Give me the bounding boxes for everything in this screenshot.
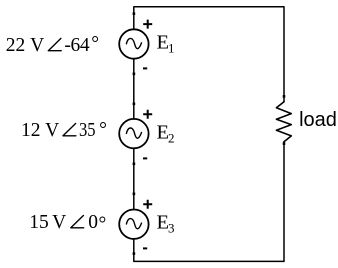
E1 polarity plus [143,20,152,29]
angle symbol label 3 [71,216,84,228]
svg-text:-64: -64 [64,35,89,56]
E3 polarity plus [143,200,152,209]
E2 polarity plus [143,110,152,119]
svg-text:15: 15 [29,212,49,233]
wire left middle E1-E2 [133,59,135,119]
wire bottom [134,142,284,262]
source E3 sine [126,219,141,229]
svg-text:°: ° [99,120,107,141]
pin dot load top [283,95,286,98]
source E1 circle [119,29,148,58]
svg-text:V: V [52,212,66,233]
svg-text:3: 3 [168,220,175,235]
pin dot E3 top [133,193,136,196]
angle symbol label 1 [48,38,61,50]
svg-text:0: 0 [88,212,98,233]
svg-text:12: 12 [21,120,41,141]
pin dot load bottom [283,142,286,145]
E1 polarity minus [143,67,147,69]
source E3 circle [119,210,148,239]
svg-text:°: ° [99,214,107,235]
svg-text:35: 35 [79,120,96,141]
wire left middle E2-E3 [133,149,135,210]
pin dot E3 bottom [133,252,136,255]
pin dot E2 top [133,103,136,106]
source E2 sine [126,128,141,138]
pin dot E2 bottom [133,163,136,166]
E2 polarity minus [143,157,147,159]
svg-text:2: 2 [168,130,175,145]
svg-text:load: load [299,109,337,131]
svg-text:1: 1 [168,40,175,55]
svg-text:V: V [45,120,59,141]
pin dot E1 top [133,12,136,15]
resistor load zigzag [276,102,291,142]
angle symbol label 2 [63,124,76,136]
E3 polarity minus [143,247,147,249]
wire top [134,7,284,102]
svg-text:°: ° [91,34,99,55]
svg-text:22: 22 [6,35,26,56]
svg-text:V: V [30,35,44,56]
pin dot E1 bottom [133,73,136,76]
source E1 sine [126,38,141,48]
source E2 circle [119,119,148,148]
